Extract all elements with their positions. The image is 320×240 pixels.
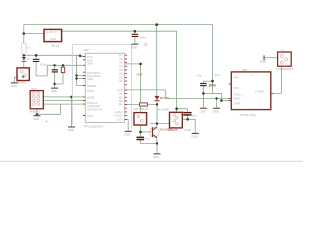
svg-text:ALS1090: ALS1090 (158, 108, 170, 112)
svg-text:GND: GND (234, 97, 240, 101)
svg-text:B4: B4 (119, 103, 123, 107)
svg-text:C2: C2 (144, 42, 148, 46)
IC2 main box (85, 53, 124, 122)
svg-text:IC2: IC2 (84, 48, 89, 52)
svg-text:SV1: SV1 (32, 87, 38, 91)
ground GND Q1 (154, 153, 161, 154)
diode D1 (155, 96, 160, 100)
wire SV1 row2 (43, 96, 83, 98)
wire vcc drop x156.7 (156, 25, 158, 96)
svg-text:VCC: VCC (234, 86, 240, 90)
ground GND branch (68, 126, 75, 127)
svg-text:AL60: AL60 (185, 128, 192, 132)
IC2 right pin labels (114, 53, 123, 121)
svg-text:10u: 10u (145, 137, 150, 141)
wire R2 to collector node (156, 102, 158, 105)
svg-text:VI +5V VO: VI +5V VO (46, 31, 58, 34)
svg-text:U$1: U$1 (242, 68, 248, 72)
wire SV1 row4 (43, 103, 83, 105)
svg-text:GND: GND (33, 117, 39, 121)
svg-text:GND: GND (124, 133, 130, 137)
wire line B to module (166, 98, 232, 100)
microphone MIC1 box (17, 68, 29, 81)
speaker box2 pins (173, 114, 176, 117)
wire mic coupling (36, 65, 47, 76)
ground GND C6 (200, 108, 207, 109)
svg-text:GND: GND (153, 155, 159, 159)
regulator IC1 box (44, 29, 62, 41)
svg-text:78L05: 78L05 (51, 44, 60, 48)
svg-text:GND: GND (260, 60, 266, 64)
svg-text:PHONEJACK: PHONEJACK (277, 67, 294, 71)
svg-text:OUT: OUT (136, 72, 143, 76)
speaker box1 pins (137, 115, 140, 118)
bottom rule (0, 161, 303, 162)
wire box2 bottom gnd (182, 119, 195, 133)
wire regulator output (62, 30, 177, 32)
svg-text:RESET: RESET (87, 84, 97, 88)
svg-text:EM926: EM926 (17, 81, 26, 85)
wire gnd stub B (216, 99, 218, 108)
module U1 pin stubs (229, 84, 273, 101)
wire box1 bottom (140, 125, 142, 132)
frame subcircuit (72, 45, 131, 129)
svg-text:CLR: CLR (117, 118, 123, 122)
svg-text:DATA: DATA (234, 101, 241, 105)
svg-text:GND: GND (131, 45, 137, 49)
wire C5 bottom (187, 115, 189, 119)
wire mic gnd (14, 77, 17, 82)
svg-text:10k SPEAK: 10k SPEAK (134, 107, 149, 111)
wire gnd branch x69.6 (71, 97, 73, 126)
microphone MIC1 pins (20, 70, 23, 73)
IC2 left pin labels (87, 55, 103, 118)
diode D2 (22, 57, 26, 60)
wire C7 leads (139, 132, 141, 144)
svg-text:GND: GND (200, 109, 206, 113)
svg-text:BAT43: BAT43 (160, 96, 169, 100)
module U1 box (231, 72, 270, 110)
svg-text:GND: GND (50, 38, 56, 41)
svg-text:GND: GND (191, 135, 197, 139)
svg-text:SPL12020SM: SPL12020SM (84, 125, 103, 129)
jack X1 box (278, 52, 292, 66)
svg-text:10u: 10u (192, 113, 197, 117)
resistor R2 (140, 103, 148, 106)
speaker box1 (134, 113, 147, 125)
wire SV1 row3 (43, 100, 83, 102)
wire row4 jog to gnd (37, 104, 61, 114)
svg-text:GND: GND (213, 109, 219, 113)
ground GND C3 (131, 44, 138, 45)
svg-text:MISO: MISO (87, 89, 95, 93)
svg-text:GND: GND (11, 84, 17, 88)
connector SV1 pins (33, 92, 40, 106)
svg-text:GND: GND (87, 77, 93, 81)
ground GND lineB (213, 108, 220, 109)
svg-text:GND: GND (87, 62, 93, 66)
wire C3 lead (134, 31, 136, 43)
svg-text:100n: 100n (40, 63, 47, 67)
resistor R3 pale (22, 43, 26, 54)
wire supply vertical left (23, 25, 25, 68)
wire base wire (141, 131, 152, 133)
wire IC left vertical (76, 55, 78, 85)
wire node line (47, 64, 83, 66)
svg-text:100n: 100n (139, 35, 146, 39)
capacitor C7 electrolytic (137, 137, 145, 139)
wire box2 left pin (150, 123, 170, 125)
svg-text:10k: 10k (26, 46, 31, 50)
resistor R1 (61, 67, 64, 73)
svg-text:A0: A0 (119, 79, 123, 83)
wire R2 leads (125, 104, 157, 106)
wire jack to module (271, 66, 282, 93)
wire IC data out (125, 90, 166, 99)
svg-text:SCK: SCK (87, 114, 93, 118)
wire IC gnd right (125, 120, 129, 131)
capacitor C3 (132, 34, 139, 35)
wire IC pin to box1 (125, 64, 141, 113)
ground GND jack (264, 55, 265, 60)
svg-text:22p: 22p (197, 74, 202, 78)
wire VCC top rail (24, 24, 213, 26)
wire emitter gnd (141, 139, 158, 154)
svg-text:MA04-2: MA04-2 (30, 109, 40, 113)
wire IC left stubs (77, 76, 83, 86)
svg-text:TX433: TX433 (255, 90, 264, 94)
speaker box2 (170, 112, 183, 128)
svg-text:T5743-TGQ: T5743-TGQ (240, 113, 257, 117)
capacitor C2 electrolytic (52, 69, 58, 70)
svg-text:MOSI: MOSI (87, 95, 94, 99)
origin cross (45, 120, 48, 123)
wire box2 top (176, 31, 178, 112)
svg-text:(OSC)SYNC: (OSC)SYNC (87, 107, 103, 111)
svg-text:22p: 22p (215, 73, 220, 77)
ground GND box2 (192, 133, 199, 134)
wire SV1 gnd (36, 109, 38, 115)
svg-text:100n: 100n (208, 84, 215, 88)
ground GND SV1 (33, 115, 40, 116)
wire jack gnd (264, 57, 278, 59)
connector SV1 box (30, 91, 43, 109)
capacitor C5 electrolytic (183, 112, 191, 114)
IC2 right pin stubs (125, 55, 128, 119)
wire C6 node (203, 92, 221, 94)
ground GND C2 (51, 88, 58, 89)
wire C2 leads (54, 65, 56, 87)
wire R1 leads (55, 65, 63, 84)
IC2 left pin stubs (83, 57, 85, 116)
svg-text:X1: X1 (281, 48, 285, 52)
wire vcc drop right (212, 25, 214, 94)
wire regulator input (24, 33, 44, 35)
jack X1 pins (280, 55, 283, 58)
capacitor C6 (200, 83, 207, 84)
wire C4 top lead (35, 55, 37, 76)
svg-text:TA8205: TA8205 (167, 128, 178, 132)
wire staircase to module (213, 93, 232, 100)
module U1 left pin labels (234, 76, 244, 106)
transistor Q1 (149, 127, 159, 138)
svg-text:ANT: ANT (234, 76, 240, 80)
wire C6 gnd (202, 93, 204, 107)
svg-text:GND: GND (68, 128, 74, 132)
wire diode to collector (156, 102, 158, 127)
wire mid rail y55 (24, 55, 83, 56)
ground GND IC right (125, 131, 132, 132)
wire box2 cap link (177, 109, 188, 112)
svg-text:GND: GND (51, 89, 57, 93)
wire C6 branch (203, 81, 212, 93)
svg-text:+: + (48, 68, 50, 72)
capacitor C4 (33, 59, 40, 60)
ground GND mic (11, 82, 18, 83)
